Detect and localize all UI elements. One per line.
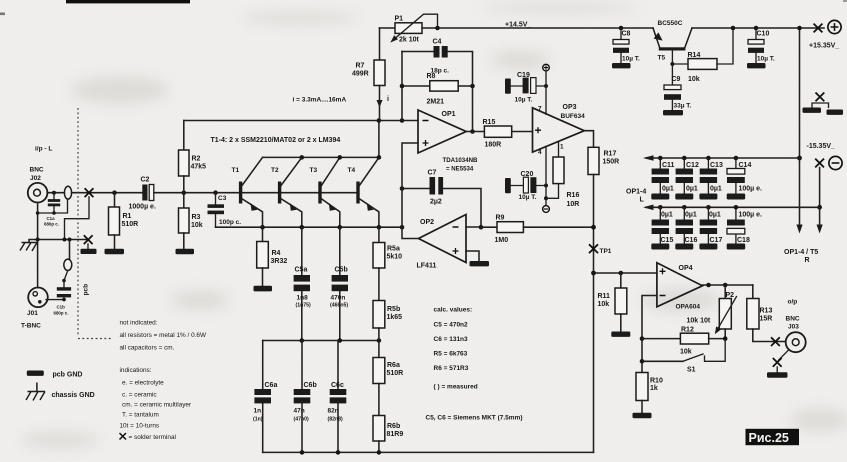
- wire: L bus with arrow: [646, 157, 800, 159]
- chassis GND symbol: [20, 243, 38, 252]
- capacitor C17 0u1: [699, 205, 722, 250]
- wire: C5/C6 mid bus: [263, 340, 379, 342]
- svg-text:R14: R14: [688, 52, 701, 59]
- svg-text:P2: P2: [726, 292, 735, 299]
- resistor R12 10k: [642, 327, 725, 356]
- svg-text:J01: J01: [27, 310, 38, 317]
- svg-text:C17: C17: [710, 237, 723, 244]
- svg-text:OP1-4 / T5: OP1-4 / T5: [784, 249, 818, 256]
- transistor T1: [232, 157, 263, 227]
- svg-text:7: 7: [538, 106, 542, 113]
- svg-text:2M21: 2M21: [427, 99, 445, 106]
- wire: emitter bus: [216, 226, 403, 228]
- svg-text:10µ T.: 10µ T.: [515, 97, 533, 104]
- svg-text:c. = ceramic: c. = ceramic: [122, 392, 157, 399]
- resistor R4 3R32: [257, 227, 288, 286]
- svg-text:C5 = 470n2: C5 = 470n2: [434, 322, 469, 329]
- wire: bottom feedback bus: [263, 451, 594, 453]
- svg-text:C18: C18: [737, 237, 750, 244]
- capacitor C5a 1n8: [294, 227, 311, 340]
- svg-text:10R: 10R: [567, 201, 580, 208]
- svg-text:indications:: indications:: [120, 367, 152, 374]
- svg-text:R8: R8: [427, 73, 436, 80]
- svg-text:Рис.25: Рис.25: [749, 431, 789, 445]
- svg-text:C13: C13: [710, 162, 723, 169]
- svg-text:15R: 15R: [760, 316, 773, 323]
- wire: J02 to bead: [47, 192, 64, 194]
- svg-text:82n: 82n: [328, 408, 339, 415]
- node TP1: [589, 225, 612, 255]
- svg-text:R6 = 571R3: R6 = 571R3: [434, 365, 469, 372]
- svg-text:C8: C8: [622, 31, 631, 38]
- capacitor C8 10u tantalum: [612, 26, 640, 69]
- pcb boundary dashed line: [78, 108, 113, 339]
- power entry ground symbol: [803, 93, 844, 115]
- svg-text:pcb: pcb: [83, 284, 90, 296]
- svg-text:(468n5): (468n5): [330, 303, 348, 309]
- resistor R6a 510R: [373, 341, 403, 384]
- svg-text:C5a: C5a: [295, 267, 308, 274]
- svg-text:0µ1: 0µ1: [661, 212, 673, 219]
- svg-text:R13: R13: [760, 308, 773, 315]
- svg-text:cm. = ceramic multilayer: cm. = ceramic multilayer: [122, 402, 192, 409]
- svg-text:T2: T2: [271, 167, 279, 174]
- connector J02 BNC input: [28, 167, 48, 203]
- svg-text:R5b: R5b: [387, 306, 400, 313]
- wire: +15.35 branch down to L bus: [799, 28, 801, 158]
- capacitor C7 2u2: [400, 170, 481, 228]
- resistor R2 47k5: [179, 121, 207, 193]
- transistor T4: [348, 157, 379, 227]
- pcb ground bar under R4: [254, 286, 273, 292]
- svg-text:+15.35V_: +15.35V_: [809, 43, 839, 50]
- pcb ground bar under X2: [81, 249, 97, 254]
- op-amp OP2 LF411: [417, 215, 467, 270]
- svg-text:10µ T.: 10µ T.: [622, 56, 640, 63]
- wire: -15.35 down to R bus: [819, 168, 821, 208]
- svg-text:o/p: o/p: [788, 299, 798, 306]
- capacitor C16 0u1: [675, 205, 697, 250]
- wire: X2 to pcb gnd: [87, 244, 89, 249]
- svg-text:33µ T.: 33µ T.: [674, 103, 692, 110]
- svg-text:R1: R1: [123, 213, 132, 220]
- wire: +14.5V rail: [438, 27, 654, 29]
- solder terminal at output: [771, 337, 780, 346]
- svg-text:C19: C19: [517, 72, 530, 79]
- svg-text:R11: R11: [598, 293, 611, 300]
- wire: OP2 inv input: [466, 226, 481, 228]
- resistor R7 499R: [352, 28, 385, 121]
- transistor T3: [310, 157, 340, 227]
- svg-text:499R: 499R: [352, 71, 369, 78]
- resistor R1 510R: [109, 190, 139, 248]
- node dot C3: [213, 190, 218, 195]
- svg-text:3R32: 3R32: [271, 258, 288, 265]
- svg-text:2k 10t: 2k 10t: [399, 37, 420, 44]
- svg-text:T. = tantalum: T. = tantalum: [122, 412, 159, 419]
- svg-text:1k65: 1k65: [387, 314, 403, 321]
- connector J01 T-BNC: [21, 288, 48, 330]
- svg-text:OP3: OP3: [563, 104, 577, 111]
- svg-text:OP1-4: OP1-4: [626, 189, 646, 196]
- svg-text:R4: R4: [272, 250, 281, 257]
- svg-text:C4: C4: [433, 39, 442, 46]
- capacitor C2 1000u electrolytic: [129, 177, 156, 211]
- svg-text:R5 = 6k763: R5 = 6k763: [434, 351, 468, 358]
- capacitor C6a 1n: [253, 341, 277, 453]
- svg-text:R16: R16: [567, 192, 580, 199]
- svg-text:C16: C16: [685, 237, 698, 244]
- svg-text:all capacitors = cm.: all capacitors = cm.: [120, 345, 175, 352]
- svg-text:T5: T5: [658, 55, 666, 62]
- svg-text:R5a: R5a: [387, 246, 400, 253]
- svg-text:T1: T1: [232, 167, 240, 174]
- svg-text:BC550C: BC550C: [658, 20, 683, 27]
- svg-text:chassis GND: chassis GND: [52, 392, 95, 399]
- svg-text:47k5: 47k5: [191, 164, 207, 171]
- svg-text:J03: J03: [788, 324, 799, 331]
- wire: OP1 noninv input: [402, 143, 418, 189]
- svg-text:150R: 150R: [603, 159, 620, 166]
- svg-text:R: R: [805, 257, 810, 264]
- svg-text:P1: P1: [395, 16, 404, 23]
- resistor R6b 81R9: [373, 384, 403, 453]
- svg-text:+14.5V_: +14.5V_: [505, 22, 531, 29]
- wire: R channel + feed arrow: [799, 158, 801, 226]
- op-amp OP1 TDA1034NB: [418, 110, 478, 173]
- svg-text:( ) = measured: ( ) = measured: [434, 384, 478, 391]
- svg-text:1M0: 1M0: [495, 237, 509, 244]
- op-amp OP3 BUF634: [533, 104, 586, 156]
- figure label box: [746, 429, 800, 445]
- svg-text:1000µ e.: 1000µ e.: [129, 204, 156, 211]
- svg-text:1n8: 1n8: [297, 295, 309, 302]
- svg-text:100µ e.: 100µ e.: [739, 212, 763, 219]
- wire: C2 to T1 base: [154, 192, 356, 194]
- svg-text:= solder terminal: = solder terminal: [129, 434, 176, 441]
- svg-text:2µ2: 2µ2: [430, 199, 442, 206]
- capacitor C18 100u electrolytic: [727, 205, 762, 250]
- svg-text:680p c.: 680p c.: [54, 311, 69, 316]
- legend chassis GND: [26, 383, 95, 401]
- svg-text:e. = electrolyte: e. = electrolyte: [122, 380, 164, 387]
- svg-text:R6a: R6a: [387, 362, 400, 369]
- wire: +15.35V rail right: [692, 27, 824, 29]
- svg-text:C6 = 131n3: C6 = 131n3: [434, 336, 469, 343]
- capacitor C3 100p: [208, 193, 242, 228]
- wire: OP2 output to servo node: [402, 189, 419, 239]
- svg-text:S1: S1: [687, 367, 696, 374]
- svg-text:C10: C10: [757, 31, 770, 38]
- svg-text:5k10: 5k10: [387, 254, 403, 261]
- wire: X1 terminal ground return: [65, 197, 90, 240]
- resistor R5b 1k65: [373, 268, 402, 341]
- svg-text:C15: C15: [661, 237, 674, 244]
- svg-text:pcb GND: pcb GND: [53, 372, 83, 379]
- potentiometer P2 10k 10t: [687, 285, 737, 341]
- current arrow below R7: [377, 100, 383, 108]
- svg-text:not indicated:: not indicated:: [120, 320, 158, 327]
- capacitor C14 100u electrolytic: [727, 156, 762, 200]
- svg-text:C12: C12: [686, 162, 699, 169]
- solder terminal X2 chassis-pcb link: [84, 235, 93, 244]
- wire: J03 shield to gnd: [779, 350, 789, 360]
- wire: bead to C2: [72, 192, 143, 194]
- svg-text:C20: C20: [521, 171, 534, 178]
- svg-text:10µ T.: 10µ T.: [519, 194, 537, 201]
- capacitor C5b 470n: [330, 227, 348, 340]
- wire: OP1 inverting input line: [184, 120, 418, 122]
- svg-text:J02: J02: [30, 175, 41, 182]
- resistor R15 180R: [483, 119, 533, 149]
- svg-text:R3: R3: [192, 214, 201, 221]
- capacitor C6c 82n: [328, 341, 347, 453]
- svg-text:100p c.: 100p c.: [219, 219, 241, 226]
- capacitor C20 10u tantalum: [505, 146, 549, 212]
- scan artifact: top-left black bar: [66, 0, 190, 3]
- pcb ground bar at OP2: [470, 261, 490, 266]
- resistor R17 150R: [588, 147, 619, 452]
- svg-text:TP1: TP1: [600, 248, 612, 255]
- svg-text:R9: R9: [496, 215, 505, 222]
- svg-text:BNC: BNC: [30, 167, 44, 174]
- notes: not indicated block: [120, 320, 207, 442]
- wire: OP3 output: [584, 131, 593, 148]
- svg-text:R15: R15: [483, 119, 496, 126]
- svg-text:1n: 1n: [254, 408, 262, 415]
- wire: collector bus: [263, 121, 379, 158]
- svg-text:C9: C9: [672, 76, 681, 83]
- svg-text:0µ1: 0µ1: [686, 186, 698, 193]
- svg-text:0µ1: 0µ1: [710, 186, 722, 193]
- terminal +15.35V: [809, 20, 841, 49]
- svg-text:10t = 10-turns: 10t = 10-turns: [120, 423, 160, 430]
- svg-text:680p c.: 680p c.: [44, 222, 59, 227]
- wire: R channel - feed arrow: [819, 207, 821, 226]
- terminal -15.35V: [807, 143, 843, 170]
- wire: J01 riser: [37, 240, 39, 288]
- potentiometer P1 2k 10t: [380, 14, 440, 43]
- svg-text:10k: 10k: [688, 76, 700, 83]
- resistor R16 10R: [546, 142, 579, 209]
- solder terminal X on input: [85, 188, 94, 197]
- node dot C1a tap: [52, 191, 56, 195]
- svg-text:R2: R2: [192, 156, 201, 163]
- resistor R13 15R: [747, 285, 786, 342]
- svg-text:C5, C6 = Siemens MKT (7.5mm): C5, C6 = Siemens MKT (7.5mm): [426, 415, 523, 422]
- resistor R3 10k: [179, 193, 203, 249]
- svg-text:calc. values:: calc. values:: [434, 307, 473, 314]
- wire: OP4 output: [702, 284, 752, 286]
- svg-text:1: 1: [560, 144, 564, 151]
- svg-text:L: L: [640, 197, 645, 204]
- svg-text:C6c: C6c: [331, 382, 344, 389]
- switch S1: [642, 339, 725, 374]
- svg-text:470n: 470n: [331, 295, 346, 302]
- svg-text:C6a: C6a: [265, 382, 278, 389]
- op-amp OP4 OPA604: [657, 263, 703, 311]
- svg-text:(82n8): (82n8): [328, 417, 344, 423]
- svg-text:R7: R7: [356, 63, 365, 70]
- svg-text:TDA1034NB: TDA1034NB: [443, 157, 478, 164]
- svg-text:-15.35V_: -15.35V_: [807, 143, 836, 150]
- transistor T2: [271, 157, 302, 227]
- svg-text:T-BNC: T-BNC: [21, 323, 41, 330]
- resistor R14 10k: [670, 26, 735, 83]
- svg-text:i/p - L: i/p - L: [35, 146, 52, 153]
- svg-text:R17: R17: [604, 151, 617, 158]
- svg-text:510R: 510R: [387, 370, 404, 377]
- svg-text:180R: 180R: [485, 142, 502, 149]
- capacitor C9 33u tantalum: [663, 64, 692, 115]
- svg-text:T4: T4: [348, 167, 356, 174]
- svg-text:0µ1: 0µ1: [685, 212, 697, 219]
- svg-text:(1n75): (1n75): [296, 303, 312, 309]
- svg-text:C3: C3: [218, 195, 227, 202]
- capacitor C15 0u1: [651, 205, 673, 250]
- svg-text:BUF634: BUF634: [561, 113, 586, 120]
- svg-text:C1b: C1b: [57, 305, 66, 310]
- svg-text:10k: 10k: [191, 222, 203, 229]
- svg-text:C6b: C6b: [304, 382, 317, 389]
- chassis wire: [29, 240, 88, 243]
- svg-text:i = 3.3mA....16mA: i = 3.3mA....16mA: [293, 97, 347, 104]
- capacitor C4 18p feedback: [402, 39, 473, 121]
- legend pcb GND: [27, 371, 44, 376]
- pcb ground bar under R1: [105, 249, 125, 254]
- svg-text:(47n0): (47n0): [294, 417, 310, 423]
- wire: R bus with arrow: [646, 206, 820, 208]
- ferrite bead on input: [64, 186, 71, 199]
- svg-text:OP2: OP2: [420, 219, 434, 226]
- svg-text:C7: C7: [428, 170, 437, 177]
- svg-text:R6b: R6b: [387, 423, 400, 430]
- svg-text:100µ e.: 100µ e.: [739, 186, 763, 193]
- svg-text:BNC: BNC: [786, 316, 800, 323]
- wire: OP1 output: [466, 131, 484, 133]
- resistor R9 1M0: [481, 215, 594, 245]
- wire: OP4 inverting input bus: [642, 296, 657, 373]
- svg-text:1k: 1k: [650, 385, 658, 392]
- resistor R11 10k: [598, 273, 631, 337]
- svg-text:510R: 510R: [122, 221, 139, 228]
- capacitor C1a 680p from input to shield: [38, 193, 68, 227]
- node dot R2/R3: [182, 190, 187, 195]
- svg-text:4: 4: [538, 149, 542, 156]
- svg-text:10k 10t: 10k 10t: [687, 318, 711, 325]
- svg-text:i: i: [387, 96, 389, 103]
- resistor R5a 5k10: [373, 227, 402, 268]
- svg-text:R10: R10: [650, 378, 663, 385]
- svg-text:C5b: C5b: [335, 267, 348, 274]
- svg-text:OP1: OP1: [442, 111, 456, 118]
- svg-text:T1-4: 2 x SSM2210/MAT02 or 2 x: T1-4: 2 x SSM2210/MAT02 or 2 x LM394: [211, 137, 341, 144]
- ferrite bead J01: [64, 259, 72, 270]
- capacitor C10 10u tantalum: [747, 26, 775, 69]
- transistor T5 BC550C: [653, 20, 692, 62]
- svg-text:0µ1: 0µ1: [662, 186, 674, 193]
- resistor R10 1k: [633, 373, 663, 419]
- capacitor C6b 47n: [294, 341, 317, 453]
- resistor R8 2M21 feedback: [400, 73, 475, 106]
- svg-text:81R9: 81R9: [387, 431, 404, 438]
- notes: calc values block: [426, 307, 523, 422]
- svg-text:LF411: LF411: [417, 263, 437, 270]
- svg-text:C14: C14: [739, 162, 752, 169]
- svg-text:(1n): (1n): [253, 417, 263, 423]
- capacitor C13 0u1: [699, 156, 723, 200]
- svg-text:47n: 47n: [294, 408, 305, 415]
- svg-text:= NE5534: = NE5534: [446, 166, 474, 173]
- svg-text:all resistors = metal 1% / 0.6: all resistors = metal 1% / 0.6W: [120, 332, 207, 339]
- svg-text:OP4: OP4: [679, 265, 693, 272]
- connector J03 BNC output: [786, 299, 806, 353]
- svg-text:C2: C2: [141, 177, 150, 184]
- svg-text:10k: 10k: [598, 301, 610, 308]
- svg-text:10µ T.: 10µ T.: [757, 56, 775, 63]
- wire: J02 shield down: [37, 203, 39, 240]
- wire: OP2 +input to gnd: [466, 251, 479, 261]
- capacitor C19 10u tantalum: [505, 64, 549, 114]
- capacitor C1b 680p at J01: [46, 271, 71, 316]
- svg-text:T3: T3: [310, 167, 318, 174]
- capacitor C11 0u1: [651, 156, 674, 200]
- wire: TP1 node to OP4: [594, 272, 657, 274]
- svg-text:10k: 10k: [680, 349, 692, 356]
- pcb ground bar under R3: [176, 249, 195, 254]
- svg-text:C1a: C1a: [47, 216, 56, 221]
- svg-text:R12: R12: [681, 327, 694, 334]
- svg-text:0µ1: 0µ1: [709, 212, 721, 219]
- capacitor C12 0u1: [675, 156, 699, 200]
- svg-text:C11: C11: [662, 162, 675, 169]
- svg-text:OPA604: OPA604: [676, 304, 701, 311]
